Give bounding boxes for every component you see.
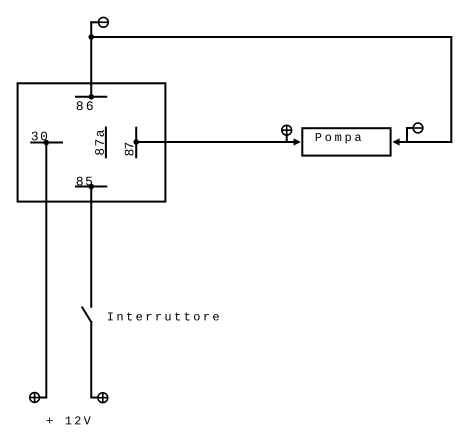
wire from pin 30 down to +12V left terminal <box>40 143 47 398</box>
switch label Interruttore <box>108 312 219 320</box>
battery plus terminal (bottom left) <box>30 393 40 403</box>
wire stub up to pump minus terminal <box>407 128 412 142</box>
pump minus terminal <box>413 123 423 133</box>
wire from switch down to +12V right terminal <box>91 322 98 398</box>
relay pin 87 stub <box>135 128 137 158</box>
wire top horizontal <box>91 36 451 38</box>
pin label 87a <box>95 130 104 155</box>
pin label 86 <box>77 101 93 110</box>
pin label 85 <box>77 177 92 186</box>
wire stub from top minus terminal <box>91 21 98 23</box>
pin label 87 <box>125 143 134 156</box>
arrowhead into pump left side <box>294 138 301 145</box>
battery plus terminal (bottom right) <box>98 393 108 403</box>
battery minus terminal (top) <box>99 17 109 27</box>
switch S1 lever <box>82 308 91 323</box>
pump M1 body <box>302 128 390 155</box>
relay K1 body <box>18 83 166 201</box>
wire from pin 87 to pump <box>136 141 294 143</box>
junction dot pin 85 <box>88 184 94 190</box>
relay pin 87a stub <box>105 128 107 158</box>
arrowhead into pump right side <box>392 138 399 145</box>
wire stub from pump plus terminal down to wire <box>286 135 288 142</box>
relay pin 86 stub <box>76 96 106 98</box>
pump label Pompa <box>316 133 361 143</box>
junction node (top left) <box>88 34 94 40</box>
junction dot pin 86 <box>88 94 94 100</box>
supply label + 12V <box>47 416 91 424</box>
junction dot pin 87 <box>133 139 139 145</box>
wire from pin 85 down to switch <box>90 187 92 307</box>
junction dot pin 30 <box>44 140 50 146</box>
wire from right vertical to pump right terminal <box>398 141 451 143</box>
relay pin 30 stub <box>31 142 62 144</box>
pump plus terminal <box>282 125 292 135</box>
relay pin 85 stub <box>76 186 106 188</box>
wire from top terminal down to relay pin 86 <box>90 22 92 97</box>
wire right vertical <box>450 37 452 142</box>
pin label 30 <box>32 132 47 141</box>
